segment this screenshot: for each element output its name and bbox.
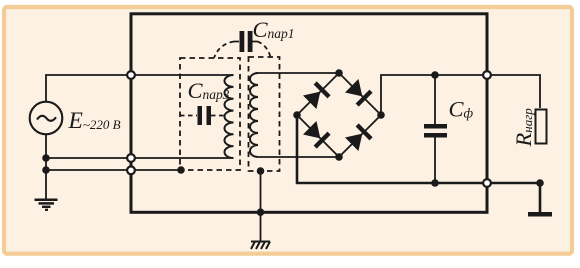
diode VD3 (left node to bottom node)	[303, 121, 331, 149]
junction: Rload bottom on DC- rail	[536, 179, 544, 187]
node: bridge DC+ right	[377, 111, 385, 119]
junction: primary screen box to source ground	[177, 166, 185, 174]
shield box (grounded screen enclosure)	[131, 14, 487, 213]
wire: source lower terminal to left screen box	[46, 169, 181, 171]
wire: bridge right node up and along DC+ rail to load	[381, 75, 540, 115]
junction: secondary screen box to ground wire	[257, 167, 265, 175]
junction: ground wire on shield box bottom	[257, 208, 265, 216]
node: bridge AC top	[335, 69, 343, 77]
AC source E~220V	[30, 102, 63, 135]
diode VD2 (top node to right node)	[345, 79, 373, 107]
capacitor Cf	[434, 75, 436, 183]
earth ground (source)	[35, 200, 58, 210]
load bottom terminal bar	[528, 212, 552, 217]
feedthrough insulator: left edge ground wire	[127, 166, 135, 174]
feedthrough insulator: right edge DC+ rail	[483, 71, 491, 79]
node: bridge AC bottom	[335, 153, 343, 161]
wire: bridge left node down to DC- rail to load bottom	[297, 115, 540, 212]
feedthrough insulator: left edge primary return	[127, 154, 135, 162]
node: bridge DC- left	[293, 111, 301, 119]
transformer screen box right (dashed)	[249, 57, 280, 171]
capacitor Cpar1 with dashed links to both screens	[234, 41, 258, 43]
diode bridge frame	[297, 73, 381, 157]
wire: source top to primary top	[46, 75, 234, 103]
transformer secondary winding	[250, 73, 258, 157]
resistor Rload	[536, 110, 547, 144]
feedthrough insulator: left edge top rail	[127, 71, 135, 79]
junction: Cf top on DC+ rail	[431, 71, 439, 79]
diode VD1 (left node to top node)	[303, 81, 331, 109]
junction: Cf bottom on DC- rail	[431, 179, 439, 187]
wire: secondary top to bridge top node	[258, 72, 339, 74]
wire: secondary bottom to bridge bottom node	[258, 156, 339, 158]
diode VD4 (bottom node to right node)	[345, 123, 373, 151]
capacitor Cpar3 (dashed leads)	[180, 115, 197, 117]
hatched chassis ground	[251, 242, 270, 250]
wire: right screen box to shield box bottom / hatched ground	[260, 171, 262, 241]
wire: primary bottom to source bottom	[46, 134, 234, 158]
junction: source ground leg	[42, 166, 50, 174]
transformer screen box left (dashed)	[180, 58, 240, 170]
junction: source lower terminal / primary return	[42, 154, 50, 162]
wire: source ground leg	[45, 158, 47, 199]
feedthrough insulator: right edge DC- rail	[483, 179, 491, 187]
transformer primary winding	[225, 75, 234, 158]
